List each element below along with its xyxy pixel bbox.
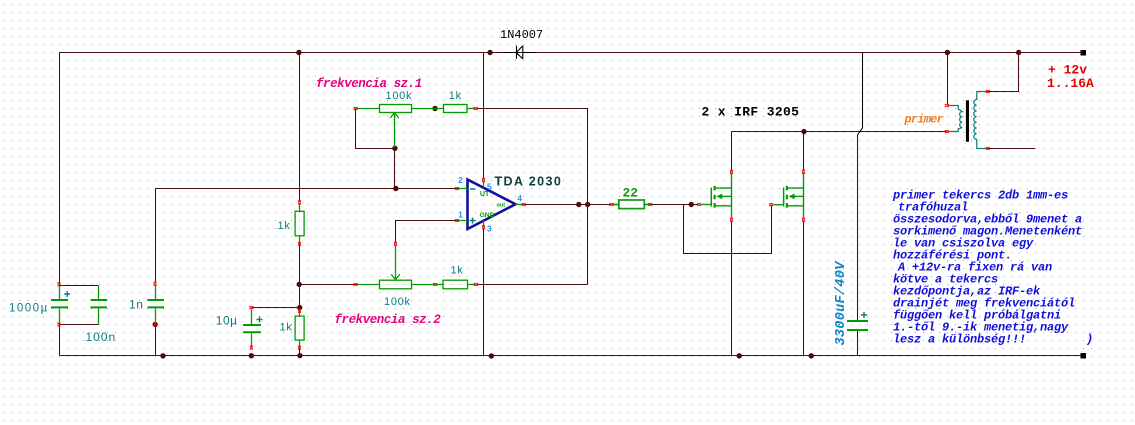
node bus / right source xyxy=(809,353,814,358)
svg-text:100k: 100k xyxy=(384,296,411,308)
resistor R2 1k vertical lower xyxy=(295,309,304,348)
secondary winding xyxy=(974,92,984,149)
capacitor C5 3300uF/40V xyxy=(847,321,868,330)
svg-text:1k: 1k xyxy=(278,220,291,232)
wire gate loop xyxy=(684,205,772,254)
svg-text:4: 4 xyxy=(518,194,523,203)
svg-text:1N4007: 1N4007 xyxy=(500,28,543,42)
node top bus / primary xyxy=(945,50,950,55)
potentiometer P1 100k top xyxy=(356,105,444,148)
wire left mosfet drain xyxy=(731,132,733,172)
wire pin2 horizontal xyxy=(156,188,457,190)
wire rail x300 top xyxy=(299,53,301,203)
node bus / 10u xyxy=(249,353,254,358)
node pot1 wiper loop xyxy=(392,146,397,151)
resistor R1 1k vertical upper xyxy=(295,203,304,244)
note paragraph blue xyxy=(892,188,1093,346)
wire 3300u lower xyxy=(857,331,859,356)
diode 1N4007 xyxy=(503,46,536,59)
wire feedback top and vertical xyxy=(477,109,588,285)
svg-text:1n: 1n xyxy=(129,298,144,312)
svg-text:UT: UT xyxy=(480,191,490,198)
primary winding xyxy=(954,106,962,132)
svg-text:frekvencia sz.2: frekvencia sz.2 xyxy=(335,313,442,327)
node 1n bottom xyxy=(153,322,158,327)
wire right mosfet drain xyxy=(803,132,805,172)
black +12V feed wire with jog xyxy=(858,53,863,136)
wire output left xyxy=(524,204,611,206)
node bus / rail300 xyxy=(297,353,302,358)
svg-text:out: out xyxy=(497,202,506,208)
wire output right xyxy=(651,204,699,206)
node top bus / rail300 xyxy=(296,50,301,55)
node top bus / diode-pin5 xyxy=(487,50,492,55)
wire bottom bus xyxy=(60,355,1084,357)
svg-text:1: 1 xyxy=(458,211,463,220)
node rail300 / 10u branch xyxy=(297,305,302,310)
wire rail x300 mid xyxy=(299,246,301,310)
svg-text:frekvencia sz.1: frekvencia sz.1 xyxy=(316,77,422,91)
svg-text:): ) xyxy=(1086,333,1093,347)
node output stray dot xyxy=(576,202,581,207)
resistor R5 22 output xyxy=(612,200,650,209)
wire 3300u upper xyxy=(857,135,859,320)
terminal square top right xyxy=(1081,50,1087,56)
node drain bus / right drain xyxy=(801,129,806,134)
wire 1n lower vertical xyxy=(155,325,157,356)
wire left rail upper xyxy=(59,53,61,286)
capacitor C1 1000u electrolytic xyxy=(51,286,68,324)
capacitor C4 10u electrolytic xyxy=(243,309,261,348)
wire rail x300 bottom xyxy=(299,349,301,356)
wire secondary bottom out xyxy=(988,148,1036,150)
wire right mosfet source xyxy=(803,221,805,356)
node rail300 / row284 xyxy=(297,282,302,287)
wire drain bus xyxy=(732,131,947,133)
transistor Q1 IRF3205 left xyxy=(701,173,732,220)
transformer T1 xyxy=(954,92,983,149)
wire pot1 wiper to pin2 xyxy=(394,149,396,189)
op-amp U1 TDA2030 xyxy=(455,174,562,233)
svg-text:100k: 100k xyxy=(386,90,413,102)
svg-text:100n: 100n xyxy=(86,330,117,344)
node bus / pin3 xyxy=(489,353,494,358)
node pot1-1k xyxy=(432,106,437,111)
svg-text:2 x IRF 3205: 2 x IRF 3205 xyxy=(702,105,800,120)
wire secondary top to bus xyxy=(988,53,1019,92)
wire pin3 to bottom bus xyxy=(483,228,485,356)
capacitor C2 100n xyxy=(91,286,108,325)
svg-text:1k: 1k xyxy=(451,265,464,277)
wire left mosfet source xyxy=(731,221,733,356)
potentiometer P2 100k bottom xyxy=(356,245,435,289)
svg-text:1k: 1k xyxy=(280,322,293,334)
wire pin1 horizontal and drop xyxy=(396,221,457,244)
node top bus / secondary xyxy=(1016,50,1021,55)
svg-text:1000µ: 1000µ xyxy=(9,303,49,315)
wire primary top feed xyxy=(947,53,949,106)
transformer core xyxy=(966,100,969,142)
node bus / 1n xyxy=(160,353,165,358)
svg-text:2: 2 xyxy=(458,176,463,185)
wire row284 left xyxy=(300,284,356,286)
wire 1n upper vertical xyxy=(155,189,157,284)
wire 100n bottom jog xyxy=(60,324,99,326)
svg-text:lesz a különbség!!!: lesz a különbség!!! xyxy=(893,333,1026,347)
svg-text:primer: primer xyxy=(904,113,944,127)
svg-text:TDA 2030: TDA 2030 xyxy=(495,174,563,188)
node pin2 wire tap xyxy=(393,186,398,191)
svg-text:3300uF/40V: 3300uF/40V xyxy=(834,260,849,346)
svg-text:GND: GND xyxy=(480,212,495,219)
wire 100n top jog xyxy=(60,285,99,287)
svg-text:3: 3 xyxy=(487,224,492,233)
node output / feedback xyxy=(585,202,590,207)
wire 10u branch xyxy=(252,307,300,309)
wire left rail lower xyxy=(59,324,61,355)
wire pot1 left loop xyxy=(356,109,395,149)
wire pin5 feed from bus xyxy=(483,53,485,180)
svg-text:22: 22 xyxy=(623,186,639,201)
node bus / left source xyxy=(737,353,742,358)
terminal square bottom right xyxy=(1081,353,1087,359)
svg-text:1..16A: 1..16A xyxy=(1047,76,1094,91)
resistor R4 1k bottom row xyxy=(435,280,476,289)
svg-text:1k: 1k xyxy=(449,90,462,102)
wire top bus xyxy=(60,52,1084,54)
resistor R3 1k top row xyxy=(444,105,476,113)
wire feedback bottom horizontal xyxy=(477,284,588,286)
transistor Q2 IRF3205 right xyxy=(774,173,804,220)
svg-text:10µ: 10µ xyxy=(216,314,238,328)
capacitor C3 1n xyxy=(148,285,165,324)
node output / gates xyxy=(689,202,694,207)
